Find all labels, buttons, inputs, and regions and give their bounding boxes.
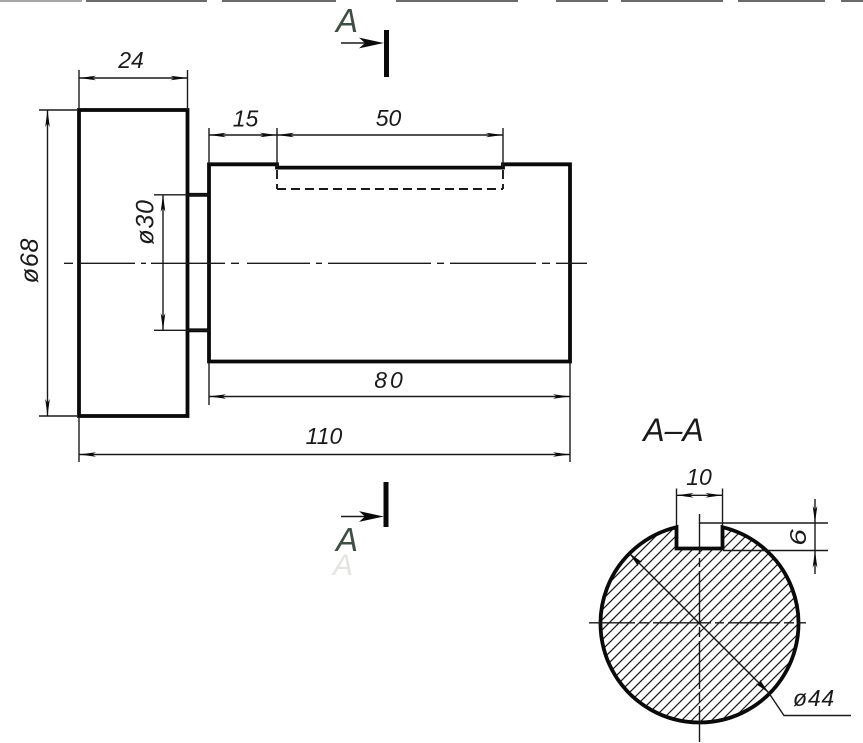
dim ø30 line (162, 195, 164, 330)
dim 15 extension line left (208, 128, 210, 164)
cropped border line at top (0, 0, 863, 2)
dim 10 line (677, 494, 723, 496)
dim ø30 arrows (161, 195, 166, 212)
svg-text:50: 50 (376, 105, 402, 131)
svg-text:ø44: ø44 (793, 685, 835, 711)
cutting plane mark top: arrow (341, 42, 378, 44)
dim ø68 line (47, 110, 49, 416)
dim 80 arrows (209, 394, 226, 399)
cutting plane mark bottom: thick bar (384, 482, 389, 527)
section outline with keyway notch (601, 527, 799, 722)
dim 110 extension line left (78, 418, 80, 462)
svg-text:80: 80 (374, 367, 406, 393)
svg-text:6: 6 (785, 529, 811, 546)
svg-text:ø68: ø68 (16, 238, 44, 283)
svg-text:15: 15 (233, 106, 259, 132)
svg-text:A: A (334, 2, 358, 39)
svg-text:10: 10 (686, 464, 712, 490)
dim 24 line (79, 77, 188, 79)
section horizontal centerline (589, 622, 806, 624)
dim 80 extension line left (208, 363, 210, 405)
dim 110 arrows (79, 452, 96, 457)
diameter line ø44 (630, 554, 769, 693)
dim 6 line (814, 499, 816, 574)
dim 50 line (277, 134, 503, 136)
section hatching (588, 310, 812, 743)
shaft outline (209, 164, 570, 361)
dim 15/50 extension line middle (276, 128, 278, 167)
dim 80 line (209, 396, 570, 398)
dim ø68 arrows (45, 110, 50, 127)
flange outline (79, 110, 188, 416)
dim 110 line (79, 454, 570, 456)
dim 15 arrows (209, 133, 226, 138)
dim 6 extension line top (699, 522, 828, 524)
section vertical centerline (699, 514, 701, 742)
dim 10 arrows (677, 493, 694, 498)
dim 24 extension lines (78, 70, 80, 110)
dim 6 extension line bottom (723, 550, 828, 552)
svg-text:24: 24 (117, 47, 144, 73)
cutting plane mark top: thick bar (384, 30, 389, 77)
dim 6 arrows (813, 506, 818, 523)
neck bottom line (188, 328, 210, 332)
dim 80/110 extension line right (569, 363, 571, 462)
neck top line (188, 193, 210, 197)
svg-text:ø30: ø30 (132, 199, 160, 244)
leader ø44 (769, 693, 852, 716)
keyway hidden line left edge (276, 170, 278, 189)
dim 15 line (209, 134, 277, 136)
svg-text:A: A (331, 549, 353, 582)
dim ø68 extension lines (39, 109, 77, 111)
keyway hidden line right edge (502, 170, 504, 189)
dim 50 extension line right (502, 128, 504, 167)
keyway hidden line bottom (277, 188, 503, 190)
centerline main view (64, 262, 587, 264)
dim ø30 extension lines (154, 194, 209, 196)
svg-text:110: 110 (306, 423, 343, 449)
dim 50 arrows (277, 133, 294, 138)
cutting plane mark bottom: arrow (341, 516, 378, 518)
svg-text:A–A: A–A (641, 412, 703, 448)
dim 24 arrows (79, 76, 96, 81)
dim 10 extension lines (676, 489, 678, 527)
